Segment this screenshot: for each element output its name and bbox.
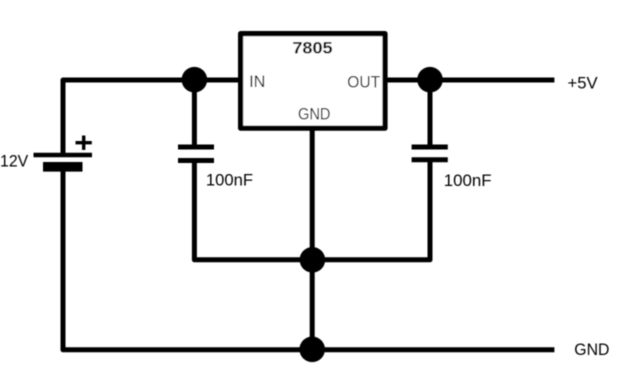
battery B1 12V: [34, 136, 93, 167]
wire battery negative to bottom ground rail: [63, 167, 554, 350]
battery positive plate: [34, 153, 93, 157]
node junction dot capacitor ground rail / GND pin: [300, 247, 326, 273]
svg-text:7805: 7805: [292, 39, 332, 58]
svg-text:+5V: +5V: [568, 74, 599, 93]
wire OUT node stub down to C2: [428, 80, 433, 146]
wire C2 bottom to GND junction: [312, 160, 430, 260]
node junction dot OUT rail / C2: [417, 67, 443, 93]
battery negative plate: [43, 162, 83, 172]
wire OUT to +5V terminal: [385, 78, 554, 83]
svg-text:IN: IN: [249, 72, 265, 91]
wire battery positive to top rail into IN: [63, 80, 241, 156]
svg-text:100nF: 100nF: [206, 170, 253, 189]
capacitor C2 100nF: [412, 147, 448, 160]
node junction dot IN rail / C1: [182, 67, 208, 93]
node junction dot bottom ground rail / GND pin: [299, 337, 325, 363]
wire IN node stub down to C1: [192, 80, 197, 146]
capacitor C1 100nF: [178, 147, 214, 161]
svg-text:100nF: 100nF: [444, 171, 492, 190]
regulator U1 7805: [241, 34, 385, 129]
regulator body outline: [241, 34, 385, 129]
svg-text:GND: GND: [574, 340, 609, 359]
svg-text:GND: GND: [298, 104, 330, 123]
wire GND pin down to bottom rail: [310, 128, 315, 350]
svg-text:12V: 12V: [0, 152, 29, 171]
svg-text:OUT: OUT: [347, 72, 380, 91]
wire C1 bottom to GND junction: [194, 161, 313, 260]
battery plus polarity marker: [76, 136, 92, 150]
